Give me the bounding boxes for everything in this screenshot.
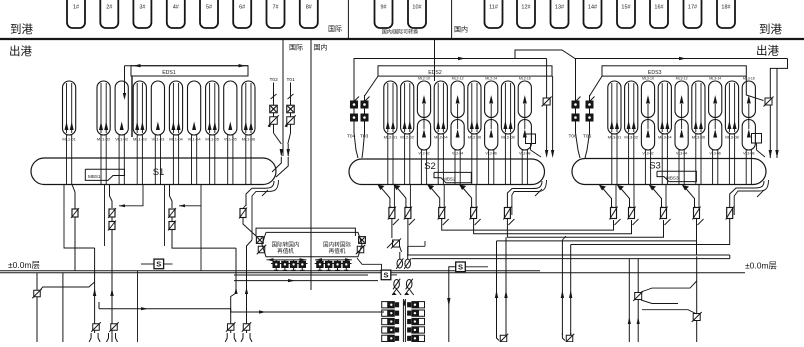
svg-text:10#: 10# [412,5,422,11]
svg-text:国内: 国内 [454,25,468,34]
svg-text:再值机: 再值机 [277,247,294,255]
svg-text:MBS2: MBS2 [443,177,456,182]
svg-text:ML1-04: ML1-04 [169,137,183,142]
svg-text:VL1-02: VL1-02 [115,137,129,142]
svg-text:VL3-02: VL3-02 [642,152,653,156]
svg-text:VL2-04: VL2-04 [452,152,463,156]
svg-text:6#: 6# [239,5,246,11]
svg-text:ML2-08: ML2-08 [501,135,515,140]
svg-text:国内转国际: 国内转国际 [323,241,351,249]
svg-text:ML3-01: ML3-01 [608,135,622,140]
svg-text:EDS1: EDS1 [162,70,176,76]
svg-text:S2: S2 [424,161,436,172]
svg-text:11#: 11# [489,5,499,11]
svg-text:14#: 14# [588,5,598,11]
svg-text:EDS3: EDS3 [648,70,662,76]
svg-text:VL2-08: VL2-08 [519,152,530,156]
svg-text:ML2-14: ML2-14 [485,77,497,81]
svg-text:T02: T02 [270,77,279,83]
svg-text:ML3-16: ML3-16 [743,77,755,81]
svg-text:1#: 1# [73,5,80,11]
svg-text:ML3-04: ML3-04 [658,135,672,140]
svg-text:13#: 13# [555,5,565,11]
svg-text:17#: 17# [688,5,698,11]
svg-text:EDS2: EDS2 [428,70,442,76]
svg-text:T01: T01 [287,77,296,83]
svg-text:VL3-06: VL3-06 [710,152,721,156]
svg-text:MBS3: MBS3 [666,175,679,180]
svg-text:S3: S3 [649,161,661,172]
svg-text:ML1-02: ML1-02 [97,137,111,142]
svg-text:出港: 出港 [756,44,779,58]
svg-text:ML2-04: ML2-04 [434,135,448,140]
svg-text:ML1-03: ML1-03 [133,137,147,142]
svg-text:2#: 2# [106,5,113,11]
svg-text:MBS1: MBS1 [88,174,101,179]
svg-text:±0.0m层: ±0.0m层 [745,261,777,271]
svg-text:ML1-06: ML1-06 [242,137,256,142]
svg-text:7#: 7# [272,5,279,11]
svg-text:ML2-01: ML2-01 [384,135,398,140]
svg-text:T05: T05 [583,134,592,140]
svg-text:出港: 出港 [9,44,32,58]
svg-text:4#: 4# [173,5,180,11]
svg-text:12#: 12# [521,5,531,11]
svg-text:S1: S1 [153,167,165,178]
svg-text:VL1-05: VL1-05 [224,137,238,142]
svg-text:国际: 国际 [328,24,342,33]
svg-text:S: S [383,271,388,280]
svg-text:VL2-02: VL2-02 [418,152,429,156]
svg-text:15#: 15# [621,5,631,11]
svg-text:5#: 5# [206,5,213,11]
svg-text:ML3-06: ML3-06 [692,135,706,140]
svg-text:ML2-02: ML2-02 [400,135,414,140]
svg-text:18#: 18# [721,5,731,11]
svg-text:VL3-04: VL3-04 [676,152,687,156]
svg-text:ML1-01: ML1-01 [62,137,76,142]
svg-text:到港: 到港 [10,23,33,36]
svg-text:±0.0m层: ±0.0m层 [8,260,40,270]
svg-text:S: S [458,263,463,272]
svg-text:ML3-02: ML3-02 [624,135,638,140]
svg-text:8#: 8# [306,5,313,11]
svg-text:再值机: 再值机 [329,247,346,255]
svg-text:VL1-03: VL1-03 [151,137,165,142]
svg-text:VL2-06: VL2-06 [486,152,497,156]
svg-text:国际转国内: 国际转国内 [272,241,300,249]
svg-text:3#: 3# [139,5,146,11]
svg-text:国内/国际可转换: 国内/国际可转换 [382,29,418,36]
svg-text:ML3-14: ML3-14 [709,77,721,81]
svg-text:ML3-10: ML3-10 [642,77,654,81]
svg-text:VL1-04: VL1-04 [188,137,202,142]
svg-text:VL3-08: VL3-08 [743,152,754,156]
svg-text:ML3-08: ML3-08 [725,135,739,140]
svg-text:ML2-16: ML2-16 [519,77,531,81]
svg-text:16#: 16# [654,5,664,11]
svg-text:国际: 国际 [289,43,303,52]
svg-text:ML1-05: ML1-05 [205,137,219,142]
svg-text:ML2-12: ML2-12 [452,77,464,81]
svg-text:国内: 国内 [314,43,328,52]
svg-text:9#: 9# [380,5,387,11]
svg-text:ML2-10: ML2-10 [418,77,430,81]
svg-text:ML2-06: ML2-06 [468,135,482,140]
svg-text:ML3-12: ML3-12 [676,77,688,81]
svg-text:S: S [156,260,161,269]
svg-text:到港: 到港 [759,23,782,36]
